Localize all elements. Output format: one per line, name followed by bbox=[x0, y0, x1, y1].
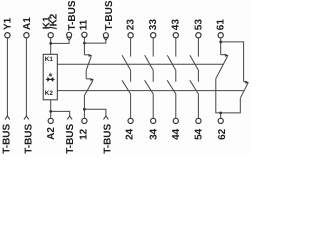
node A2 column (below box) bbox=[48, 100, 72, 124]
wire branch to T-BUS bbox=[51, 40, 69, 43]
svg-text:43: 43 bbox=[171, 19, 182, 31]
wire bbox=[6, 38, 8, 116]
wire bbox=[85, 70, 87, 79]
node 11/12 column (NC contacts) bbox=[82, 32, 109, 123]
mechanical rail K1 bbox=[57, 63, 223, 65]
svg-text:T-BUS: T-BUS bbox=[103, 123, 114, 153]
terminal 53 bbox=[196, 33, 201, 38]
T-BUS socket (bottom, under Y1) bbox=[5, 116, 10, 119]
terminal 44 bbox=[173, 118, 178, 123]
terminal 11 bbox=[82, 32, 87, 37]
contact K1 NC 61 arm bbox=[216, 56, 228, 79]
node 61/62 column (NC contacts, parallel paths) bbox=[216, 33, 249, 124]
node junction above 62 bbox=[219, 112, 222, 115]
contact K2 NC 11 arrow bbox=[90, 78, 94, 81]
contact K1 NC 61 jog bbox=[221, 54, 226, 56]
svg-text:T-BUS: T-BUS bbox=[67, 0, 78, 30]
terminal T-BUS (top 1) bbox=[67, 32, 72, 37]
svg-text:T-BUS: T-BUS bbox=[65, 123, 76, 153]
svg-text:23: 23 bbox=[126, 19, 137, 31]
wire branch to right path bbox=[221, 42, 244, 82]
svg-text:54: 54 bbox=[194, 128, 205, 140]
wire bbox=[130, 95, 132, 119]
contact K1 NC 11 arm bbox=[86, 56, 91, 70]
node A1 column bbox=[24, 33, 29, 120]
svg-text:11: 11 bbox=[79, 19, 90, 30]
T-BUS plug fork (top 2) bbox=[104, 37, 109, 40]
wire bbox=[130, 38, 132, 57]
T-BUS socket (bottom, under A1) bbox=[24, 116, 29, 119]
terminal 61 bbox=[218, 33, 223, 38]
mechanical rail K2 bbox=[57, 90, 244, 92]
terminal 43 bbox=[173, 33, 178, 38]
wire bbox=[50, 100, 52, 119]
contact K2 NO 33 arm bbox=[145, 80, 154, 94]
contact K2 NC 62 jog (right path) bbox=[244, 81, 247, 83]
wire bbox=[220, 38, 222, 55]
terminal 23 bbox=[128, 33, 133, 38]
terminal A1 bbox=[24, 33, 29, 38]
wire bbox=[175, 95, 177, 119]
contact K2 NO 43 arm bbox=[167, 80, 176, 94]
terminal A2 bbox=[48, 118, 53, 123]
svg-text:53: 53 bbox=[193, 19, 204, 31]
wire branch to T-BUS bbox=[51, 111, 70, 116]
svg-text:A2: A2 bbox=[46, 127, 57, 140]
terminal 62 bbox=[218, 118, 223, 123]
contact K2 NC 62 arrow bbox=[245, 81, 249, 84]
svg-text:34: 34 bbox=[148, 128, 159, 140]
node 43/44 column (NO contacts) bbox=[167, 33, 178, 124]
svg-text:24: 24 bbox=[125, 128, 136, 140]
node junction bbox=[49, 42, 52, 45]
terminal 12 bbox=[82, 118, 87, 123]
contact K1 NO 33 arm bbox=[145, 55, 154, 70]
svg-text:62: 62 bbox=[217, 128, 228, 140]
node Y1 column bbox=[5, 33, 10, 120]
contact K1 NC 11 arrow bbox=[88, 54, 92, 57]
svg-text:Y1: Y1 bbox=[3, 17, 14, 30]
svg-text:44: 44 bbox=[171, 128, 182, 140]
wire bbox=[50, 38, 52, 54]
terminal 24 bbox=[128, 118, 133, 123]
svg-text:K2: K2 bbox=[45, 90, 54, 97]
T-BUS socket (bottom 4) bbox=[104, 116, 109, 119]
contact K2 NC 62 arm bbox=[240, 83, 248, 98]
wire bbox=[220, 113, 222, 118]
wire bbox=[83, 95, 85, 119]
terminal 54 bbox=[196, 118, 201, 123]
wire bbox=[25, 38, 27, 116]
contact K2 NO 23 arm bbox=[122, 80, 131, 94]
contact K1 NO 23 arm bbox=[122, 55, 131, 70]
node 33/34 column (NO contacts) bbox=[145, 33, 156, 124]
svg-text:12: 12 bbox=[79, 128, 90, 140]
svg-text:61: 61 bbox=[216, 19, 227, 31]
svg-text:/K2: /K2 bbox=[49, 13, 60, 29]
T-BUS plug fork (top) bbox=[67, 37, 72, 40]
terminal 34 bbox=[151, 118, 156, 123]
wire bbox=[197, 70, 199, 82]
contact K2 NO 53 arm bbox=[190, 80, 199, 94]
contact K1 NO 53 arm bbox=[190, 55, 199, 70]
contact K2 NC 11 jog bbox=[86, 78, 90, 80]
terminal Y1 bbox=[5, 33, 10, 38]
contact K1 NC 61 arrow bbox=[225, 54, 229, 57]
node junction bbox=[49, 110, 52, 113]
wire bbox=[175, 70, 177, 82]
svg-text:T-BUS: T-BUS bbox=[23, 123, 34, 153]
node junction bbox=[219, 41, 222, 44]
wire bbox=[83, 38, 85, 55]
contact K2 NC 11 arm bbox=[85, 80, 93, 94]
wire bbox=[216, 79, 241, 113]
svg-text:T-BUS: T-BUS bbox=[2, 123, 13, 153]
svg-text:T-BUS: T-BUS bbox=[104, 0, 115, 30]
wire bbox=[175, 38, 177, 57]
svg-text:A1: A1 bbox=[22, 17, 33, 30]
relay box K1/K2 bbox=[43, 54, 57, 100]
svg-text:K1: K1 bbox=[45, 56, 54, 63]
terminal T-BUS (top 2) bbox=[103, 33, 108, 38]
node 53/54 column (NO contacts) bbox=[190, 33, 201, 124]
terminal K1/K2 bbox=[48, 33, 53, 38]
terminal 33 bbox=[151, 33, 156, 38]
svg-text:33: 33 bbox=[148, 19, 159, 31]
wire branch to T-BUS bbox=[84, 109, 106, 116]
wire bbox=[197, 95, 199, 119]
wire branch to T-BUS bbox=[84, 40, 106, 43]
wire bbox=[130, 70, 132, 82]
node K1/K2 coil column bbox=[48, 32, 71, 54]
node junction bbox=[83, 108, 86, 111]
wire bbox=[197, 38, 199, 57]
coil symbol (suppressor) U bbox=[46, 74, 55, 82]
wire bbox=[152, 95, 154, 119]
T-BUS socket (bottom 3) bbox=[67, 116, 72, 119]
wire bbox=[152, 38, 154, 57]
contact K1 NC 11 jog bbox=[84, 54, 88, 56]
contact K1 NO 43 arm bbox=[167, 55, 176, 70]
node 23/24 column (NO contacts) bbox=[122, 33, 133, 124]
wire bbox=[152, 70, 154, 82]
node junction bbox=[83, 42, 86, 45]
